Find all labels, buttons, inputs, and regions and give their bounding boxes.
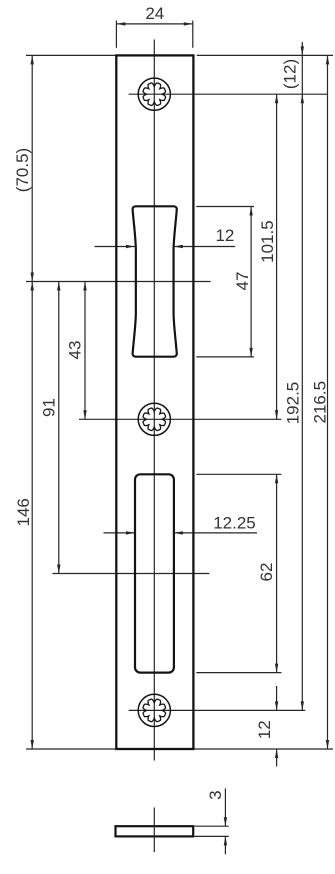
dimension 146 left [14, 282, 34, 750]
dimension 47 right [233, 207, 253, 357]
svg-text:(12): (12) [280, 59, 299, 89]
screw hole bottom outer circle [138, 694, 170, 726]
side view centerline [153, 808, 155, 853]
svg-text:146: 146 [14, 498, 33, 526]
extension lines for width 24 [116, 21, 192, 48]
extension line lower slot bottom y=672.6 [196, 672, 281, 674]
dimension 24 top [116, 4, 192, 26]
centerline vertical main [153, 40, 155, 761]
svg-text:24: 24 [145, 4, 164, 23]
extension line bottom screw centre y=710.4 [129, 709, 306, 711]
svg-text:47: 47 [233, 272, 252, 291]
screw hole middle torx star [143, 408, 166, 431]
svg-text:101.5: 101.5 [258, 220, 277, 263]
lower deadbolt slot [135, 474, 174, 672]
extension line lower slot centre y=573.5 [53, 573, 210, 575]
svg-text:216.5: 216.5 [311, 381, 330, 424]
extension line middle screw centre y=419.3 [79, 418, 281, 420]
dimension 12.25 lower slot width [104, 514, 258, 535]
extension line bottom edge y=749 [26, 748, 333, 750]
screw hole top torx star [143, 83, 166, 106]
svg-text:12.25: 12.25 [213, 514, 256, 533]
svg-text:43: 43 [66, 341, 85, 360]
dimension 216.5 right [311, 55, 330, 749]
extension line upper slot centre y=281.5 [26, 281, 211, 283]
dimension (12) right top [280, 42, 304, 103]
svg-text:12: 12 [255, 720, 274, 739]
dimension 101.5 right [258, 94, 279, 419]
svg-text:12: 12 [215, 226, 234, 245]
svg-text:91: 91 [40, 398, 59, 417]
extension lines thickness 3 [195, 826, 229, 836]
dimension (70.5) left [13, 55, 34, 281]
dimension 91 left [40, 282, 61, 574]
dimension 12 bottom right [255, 686, 278, 767]
extension line top edge y=55.4 [26, 54, 333, 56]
screw hole bottom torx star [143, 699, 166, 722]
extension line lower slot top y=474.3 [196, 473, 281, 475]
dimension 62 right [257, 474, 278, 672]
svg-text:62: 62 [257, 563, 276, 582]
screw hole top outer circle [138, 78, 170, 110]
faceplate outline [116, 55, 193, 749]
extension line upper slot top y=206.5 [196, 206, 254, 208]
upper latch slot [133, 206, 177, 356]
dimension 192.5 right [284, 94, 305, 710]
screw hole middle outer circle [138, 403, 170, 435]
svg-text:3: 3 [206, 790, 225, 799]
svg-text:(70.5): (70.5) [13, 148, 32, 192]
dimension 3 side view [206, 789, 227, 855]
svg-text:192.5: 192.5 [284, 382, 303, 425]
extension line upper slot bottom y=356.9 [196, 356, 254, 358]
side view bar [116, 826, 194, 836]
dimension 12 upper slot width [95, 226, 236, 248]
extension line top screw centre y=94.2 [129, 93, 328, 95]
dimension 43 left [66, 282, 87, 420]
